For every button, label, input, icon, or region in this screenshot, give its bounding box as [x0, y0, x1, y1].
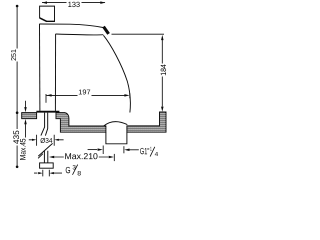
- svg-text:8: 8: [77, 170, 81, 177]
- dim G114 left arrow shaft: [88, 149, 98, 151]
- dim O34 ext ticks: [37, 135, 55, 146]
- handle wedge: [40, 18, 47, 22]
- floor right + rim: [127, 112, 166, 132]
- dot 251 top: [16, 5, 19, 8]
- dim G114 right tick: [123, 146, 125, 153]
- arrow O34 right pointing left: [54, 139, 58, 141]
- dim 251/435 line: [16, 6, 18, 167]
- dim G114 right arrow shaft: [129, 149, 139, 151]
- dim 197 left ext tick: [45, 94, 47, 103]
- deck left slab: [22, 113, 37, 119]
- svg-text:G: G: [65, 165, 70, 175]
- arrow Max210 right: [109, 156, 114, 159]
- hose end tube: [44, 151, 47, 163]
- water stream: [103, 35, 130, 112]
- arrow G114 left pointing right: [98, 148, 103, 151]
- arrow Max210 left: [49, 156, 54, 159]
- drain box: [106, 132, 127, 144]
- arrow G114 right pointing left: [124, 149, 129, 152]
- arrow O34 left pointing right: [32, 139, 36, 141]
- arrow Max45 up: [24, 119, 27, 124]
- dim G38 ext ticks: [43, 170, 50, 177]
- arrow 197 left: [46, 94, 51, 97]
- dim 133 line: [42, 2, 105, 4]
- G3/8 fitting box: [40, 163, 54, 168]
- svg-text:1: 1: [150, 147, 152, 153]
- dim Max210 right ext tick: [113, 154, 115, 161]
- body right edge: [54, 34, 56, 111]
- svg-text:Max.210: Max.210: [64, 151, 98, 161]
- svg-text:Ø34: Ø34: [40, 137, 52, 145]
- drain dome: [104, 122, 128, 126]
- handle bottom thick edge: [47, 20, 55, 22]
- arrow 184 up: [161, 35, 164, 40]
- hose upper lines: [41, 113, 45, 136]
- arrow 133 left: [42, 1, 47, 4]
- spout underside: [56, 33, 104, 36]
- dot 435 bottom: [16, 166, 19, 169]
- dim G38 arrow shafts: [34, 172, 62, 174]
- handle lever: [40, 6, 55, 21]
- svg-text:197: 197: [78, 89, 90, 96]
- base plate: [36, 111, 59, 113]
- dim 184 ext line: [112, 33, 165, 35]
- arrow 133 right: [100, 1, 105, 4]
- svg-text:133: 133: [68, 0, 80, 9]
- arrow Max45 down: [24, 107, 27, 112]
- spout tip face: [104, 27, 109, 34]
- svg-text:Max.45: Max.45: [18, 138, 27, 160]
- svg-text:G1": G1": [140, 146, 150, 156]
- dim 197 line: [46, 94, 125, 96]
- dim 197 right tick on stream: [129, 93, 131, 98]
- svg-text:251: 251: [9, 49, 18, 61]
- body left edge: [39, 24, 41, 111]
- arrow G38 right pointing left: [50, 172, 54, 174]
- dim Max210 shafts: [54, 156, 109, 158]
- arrow 184 down: [161, 107, 164, 112]
- arrow G38 left pointing right: [38, 172, 42, 174]
- dot 251 bottom: [16, 111, 19, 114]
- spout top edge: [40, 24, 104, 28]
- dim O34 arrow shafts: [29, 139, 64, 141]
- arrow 197 right: [124, 94, 129, 97]
- dim Max45 shafts: [25, 101, 27, 138]
- dim 184 line: [161, 39, 163, 107]
- svg-text:184: 184: [159, 64, 168, 76]
- dim G114 left tick: [102, 146, 104, 155]
- hose lower diagonals: [38, 143, 52, 156]
- deck mid + basin wall + floor left: [56, 113, 106, 133]
